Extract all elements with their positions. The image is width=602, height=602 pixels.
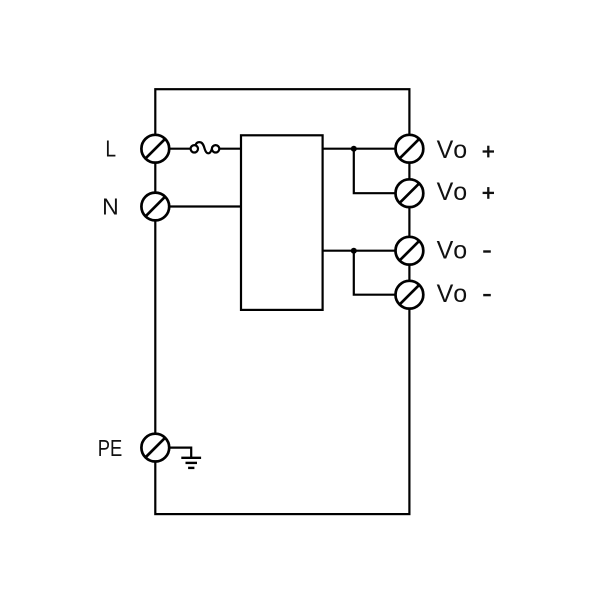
svg-text:PE: PE	[98, 435, 123, 461]
label plus (terminal 1)	[483, 146, 494, 158]
wire: box output to Vo+ terminal 1	[323, 148, 410, 150]
label minus (terminal 3)	[483, 250, 491, 252]
terminal Vo+ 2	[396, 179, 424, 207]
label minus (terminal 4)	[483, 294, 491, 296]
node: Vo+ junction dot	[351, 146, 357, 152]
svg-text:L: L	[105, 136, 116, 162]
svg-text:Vo: Vo	[437, 136, 468, 164]
terminal PE	[141, 434, 169, 462]
svg-text:Vo: Vo	[437, 237, 468, 265]
converter box U1	[241, 135, 323, 310]
svg-text:N: N	[102, 194, 119, 220]
wire: L terminal to fuse	[155, 148, 190, 150]
svg-text:Vo: Vo	[437, 178, 468, 206]
fuse F1 (thermal fuse symbol)	[191, 142, 220, 153]
wire: fuse to converter box	[219, 148, 241, 150]
label plus (terminal 2)	[483, 187, 494, 199]
wire: outer loop rectangle	[155, 89, 409, 514]
wire: N terminal to converter box	[155, 205, 241, 207]
wire: branch down from Vo+ node	[354, 149, 410, 194]
wire: PE terminal to earth	[155, 448, 191, 458]
node: Vo- junction dot	[351, 248, 357, 254]
terminal L	[141, 135, 169, 163]
terminal Vo+ 1	[396, 135, 424, 163]
terminal Vo- 1	[396, 237, 424, 265]
wire: box output to Vo- terminal 1	[323, 250, 410, 252]
wire: branch down from Vo- node	[354, 251, 410, 295]
ground (earth symbol)	[181, 458, 201, 468]
svg-text:Vo: Vo	[437, 280, 468, 308]
terminal Vo- 2	[396, 281, 424, 309]
terminal N	[141, 193, 169, 221]
